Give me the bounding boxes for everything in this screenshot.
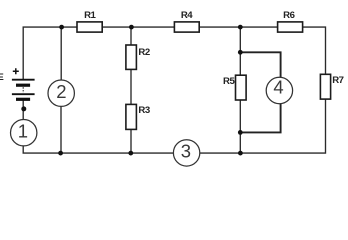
svg-text:R5: R5 <box>223 76 235 87</box>
svg-text:R4: R4 <box>181 10 193 21</box>
svg-text:R1: R1 <box>84 10 96 21</box>
svg-text:R2: R2 <box>138 47 149 58</box>
svg-text:R6: R6 <box>283 10 294 21</box>
svg-text:1: 1 <box>18 120 28 141</box>
svg-text:2: 2 <box>56 81 66 102</box>
svg-text:3: 3 <box>181 140 191 161</box>
svg-text:R3: R3 <box>138 105 149 116</box>
svg-text:R7: R7 <box>332 75 343 86</box>
svg-text:4: 4 <box>273 77 283 98</box>
